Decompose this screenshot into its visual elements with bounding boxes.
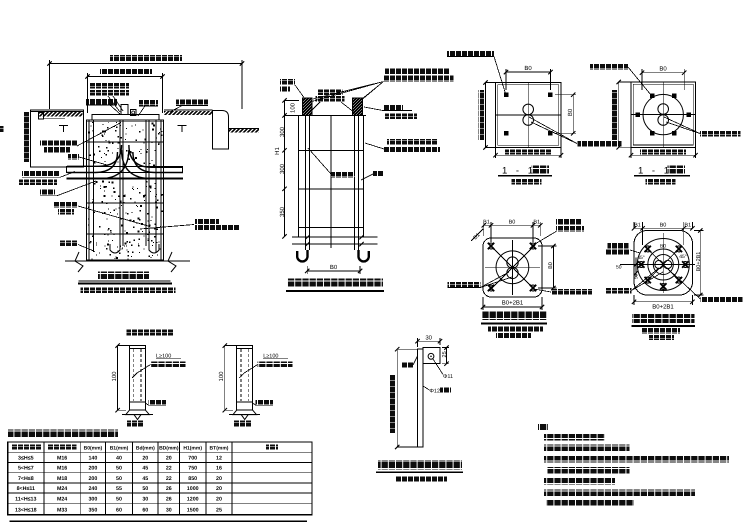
svg-text:200: 200 (88, 476, 97, 482)
svg-text:13<H≤18: 13<H≤18 (15, 508, 37, 514)
svg-text:40: 40 (116, 456, 122, 462)
svg-text:M24: M24 (57, 496, 67, 502)
svg-text:50: 50 (116, 466, 122, 472)
svg-text:20: 20 (142, 456, 148, 462)
svg-text:7<H≤8: 7<H≤8 (18, 476, 34, 482)
svg-text:B1: B1 (483, 220, 490, 226)
svg-text:5<H≤7: 5<H≤7 (18, 466, 34, 472)
svg-text:B0: B0 (330, 264, 338, 271)
svg-text:45°: 45° (637, 255, 645, 261)
svg-text:60: 60 (142, 508, 148, 514)
svg-text:26: 26 (166, 496, 172, 502)
svg-text:350: 350 (279, 206, 286, 217)
svg-text:750: 750 (188, 466, 197, 472)
svg-text:50: 50 (616, 265, 622, 271)
svg-text:22: 22 (166, 476, 172, 482)
svg-text:B0+2B1: B0+2B1 (502, 300, 524, 307)
svg-text:45: 45 (142, 476, 148, 482)
svg-text:300: 300 (279, 163, 286, 174)
svg-text:1 - 1: 1 - 1 (502, 166, 536, 177)
svg-text:1000: 1000 (187, 486, 199, 492)
svg-text:300: 300 (279, 126, 286, 137)
svg-text:20: 20 (216, 486, 222, 492)
svg-text:H1(mm): H1(mm) (183, 445, 202, 451)
svg-text:20: 20 (216, 476, 222, 482)
svg-text:100: 100 (111, 371, 118, 382)
svg-text:B0: B0 (660, 244, 666, 250)
svg-text:50: 50 (116, 496, 122, 502)
svg-text:B1(mm): B1(mm) (110, 445, 129, 451)
svg-text:M24: M24 (57, 486, 67, 492)
svg-text:11<H≤13: 11<H≤13 (15, 496, 36, 502)
svg-text:50: 50 (142, 486, 148, 492)
svg-text:240: 240 (88, 486, 97, 492)
svg-text:Φ12: Φ12 (430, 389, 441, 395)
svg-text:M16: M16 (57, 466, 67, 472)
svg-text:3≤H≤5: 3≤H≤5 (18, 456, 34, 462)
svg-text:200: 200 (88, 466, 97, 472)
svg-text:22: 22 (166, 466, 172, 472)
svg-text:1200: 1200 (187, 496, 199, 502)
svg-text:50: 50 (634, 274, 639, 280)
svg-text:B0(mm): B0(mm) (84, 445, 103, 451)
svg-text:B0: B0 (660, 223, 667, 229)
svg-text:700: 700 (188, 456, 197, 462)
svg-text:BD(mm): BD(mm) (159, 445, 179, 451)
svg-text:25: 25 (442, 351, 448, 357)
svg-text:45°: 45° (679, 254, 687, 260)
svg-text:850: 850 (188, 476, 197, 482)
svg-text:Bd(mm): Bd(mm) (136, 445, 155, 451)
svg-text:300: 300 (88, 496, 97, 502)
svg-text:M16: M16 (57, 456, 67, 462)
svg-text:26: 26 (166, 486, 172, 492)
svg-text:1 - 1: 1 - 1 (638, 166, 672, 177)
svg-text:50: 50 (116, 476, 122, 482)
svg-text:55: 55 (116, 486, 122, 492)
svg-text:Φ11: Φ11 (443, 374, 453, 380)
svg-text:B1: B1 (684, 223, 691, 229)
svg-text:16: 16 (216, 466, 222, 472)
svg-text:B0+2B1: B0+2B1 (652, 303, 674, 310)
svg-text:100: 100 (290, 102, 297, 113)
svg-text:20: 20 (216, 496, 222, 502)
svg-text:B1: B1 (634, 223, 641, 229)
svg-text:140: 140 (88, 456, 97, 462)
svg-text:8<H≤11: 8<H≤11 (17, 486, 35, 492)
svg-text:45: 45 (142, 466, 148, 472)
svg-text:20: 20 (166, 456, 172, 462)
svg-text:60: 60 (116, 508, 122, 514)
svg-text:B1: B1 (533, 220, 540, 226)
svg-text:30: 30 (166, 508, 172, 514)
svg-text:B0: B0 (524, 65, 532, 72)
svg-text:B0: B0 (548, 262, 554, 269)
svg-text:30: 30 (142, 496, 148, 502)
svg-text:M33: M33 (57, 508, 67, 514)
svg-text:1500: 1500 (187, 508, 199, 514)
svg-text:25: 25 (216, 508, 222, 514)
svg-text:H1: H1 (274, 147, 281, 155)
svg-text:30: 30 (425, 335, 432, 342)
svg-text:B0: B0 (567, 108, 574, 116)
svg-text:BT(mm): BT(mm) (210, 445, 229, 451)
svg-text:350: 350 (88, 508, 97, 514)
svg-text:12: 12 (216, 456, 222, 462)
svg-text:100: 100 (218, 371, 225, 382)
svg-text:B0: B0 (509, 220, 516, 226)
svg-text:M18: M18 (57, 476, 67, 482)
svg-text:B0: B0 (659, 66, 667, 73)
svg-text:B0+2B1: B0+2B1 (696, 252, 702, 272)
